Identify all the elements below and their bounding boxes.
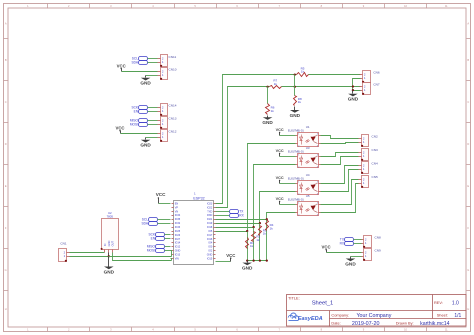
- wire R3 net from opto: [260, 192, 296, 224]
- wire ESP32 row to R3: [216, 223, 260, 225]
- wire U3 pin4 to CN3 pin2: [321, 153, 359, 157]
- svg-text:IO4: IO4: [208, 242, 213, 245]
- svg-text:IO5: IO5: [208, 230, 213, 233]
- svg-text:1k: 1k: [271, 109, 275, 113]
- optocoupler U1: [288, 125, 321, 147]
- svg-text:EL817MB(-D): EL817MB(-D): [288, 198, 304, 202]
- svg-text:REV:: REV:: [434, 300, 443, 305]
- wire ESP32 row to R4: [216, 219, 267, 221]
- svg-text:1k: 1k: [263, 232, 267, 236]
- svg-text:IO33: IO33: [175, 226, 181, 229]
- wire EN flag: [165, 238, 171, 240]
- svg-text:MOSI: MOSI: [130, 123, 138, 127]
- svg-text:EL817MB(-D): EL817MB(-D): [288, 177, 304, 181]
- wire U4 pin4 to CN4 pin2: [321, 166, 359, 184]
- svg-text:CN1: CN1: [60, 241, 66, 245]
- svg-text:VCC: VCC: [115, 126, 124, 131]
- wire R2 vertical: [253, 228, 255, 261]
- svg-text:VCC: VCC: [276, 197, 284, 201]
- power VCC group1: [117, 63, 126, 71]
- junction at U2 GND: [108, 255, 110, 257]
- connector CN13: [158, 117, 177, 129]
- net label SCL: [132, 57, 148, 61]
- svg-text:1: 1: [194, 191, 196, 195]
- svg-text:IO26: IO26: [175, 234, 181, 237]
- wire R4 vertical: [266, 220, 268, 261]
- junction rail R2: [252, 259, 254, 261]
- net label SCL at ESP32: [142, 218, 158, 222]
- resistor R2: [252, 232, 261, 242]
- wire SCK to CN14 pin2: [148, 107, 158, 109]
- wire MISO to CN13 pin2: [148, 120, 158, 122]
- wire ESP32 IO15 to VCC: [216, 261, 231, 263]
- svg-text:7: 7: [279, 4, 281, 8]
- svg-text:EN: EN: [175, 202, 179, 205]
- wire MOSI flag: [165, 250, 171, 252]
- wire U1 pin3 to CN2 pin1: [321, 143, 359, 144]
- svg-text:RX: RX: [340, 242, 345, 246]
- junction R8 crossing: [294, 86, 296, 88]
- svg-text:GND: GND: [140, 143, 151, 148]
- wire VCC to U1 pin1: [280, 135, 296, 137]
- wire R1 vertical: [247, 232, 249, 261]
- connector CN2: [359, 134, 378, 147]
- power VCC at ESP32 right: [226, 253, 235, 262]
- svg-text:2: 2: [68, 4, 70, 8]
- wire ESP32 row to R1: [216, 231, 248, 233]
- GND rail of resistor network: [248, 260, 267, 262]
- power VCC at U5: [276, 197, 284, 204]
- connector CN11: [158, 55, 177, 67]
- svg-text:RX: RX: [239, 214, 244, 218]
- wire OUT to ESP32 VIN jog: [171, 259, 172, 261]
- resistor R4: [266, 220, 274, 231]
- svg-text:GND: GND: [104, 269, 115, 274]
- svg-text:IO27: IO27: [175, 238, 181, 241]
- svg-text:VCC: VCC: [156, 192, 166, 197]
- wire U4 pin3 to CN4 pin1: [321, 170, 359, 192]
- power VCC group2: [115, 126, 124, 134]
- power VCC group3: [322, 245, 331, 253]
- svg-text:GND: GND: [207, 253, 213, 256]
- junction R3 top: [259, 222, 261, 224]
- ground regulator: [104, 257, 115, 275]
- wire RX to CN8 pin1: [354, 243, 362, 245]
- wire R7 to CN7 pin2: [282, 86, 361, 88]
- svg-text:Your Company: Your Company: [357, 313, 392, 319]
- net label SDA: [131, 61, 147, 65]
- wire RX flag: [216, 215, 230, 217]
- svg-text:G: G: [467, 268, 469, 272]
- svg-text:Drawn By:: Drawn By:: [396, 320, 414, 325]
- svg-text:1k: 1k: [256, 238, 260, 242]
- svg-text:EN: EN: [134, 110, 139, 114]
- ground group2: [140, 138, 151, 148]
- svg-text:2019-07-20: 2019-07-20: [352, 321, 380, 327]
- svg-text:4: 4: [152, 4, 154, 8]
- svg-text:B: B: [5, 58, 7, 62]
- svg-text:IO22: IO22: [207, 206, 213, 209]
- svg-text:Date:: Date:: [331, 320, 340, 325]
- net label TX at CN8: [340, 238, 354, 242]
- wire R3 vertical: [259, 224, 261, 261]
- svg-text:3: 3: [110, 4, 112, 8]
- svg-text:IO15: IO15: [207, 257, 213, 260]
- svg-text:SDA: SDA: [141, 222, 148, 226]
- net label RX at ESP32: [230, 214, 245, 218]
- svg-text:GND: GND: [140, 81, 151, 86]
- svg-text:A: A: [5, 22, 7, 26]
- wire CN6 pin1 down: [353, 79, 361, 91]
- svg-text:VN: VN: [175, 210, 179, 213]
- connector CN7: [360, 83, 380, 95]
- svg-text:1.0: 1.0: [452, 300, 459, 306]
- svg-text:CN2: CN2: [372, 134, 378, 138]
- svg-text:TITLE:: TITLE:: [288, 296, 300, 301]
- wire R4 net from opto: [267, 213, 296, 220]
- wire VCC to CN12 pin2: [121, 133, 158, 135]
- resistor R3: [259, 226, 267, 236]
- wire CN10 pin1 to ground: [146, 75, 158, 77]
- svg-text:VIN: VIN: [175, 257, 179, 260]
- junction rail R4: [266, 259, 268, 261]
- svg-text:IO2: IO2: [208, 250, 213, 253]
- svg-text:GND: GND: [290, 113, 301, 118]
- svg-text:5: 5: [194, 4, 196, 8]
- svg-text:TXD: TXD: [207, 210, 212, 213]
- svg-text:E: E: [5, 184, 7, 188]
- svg-text:IO19: IO19: [207, 222, 213, 225]
- power VCC at U3: [276, 149, 284, 156]
- junction R2 top: [252, 226, 254, 228]
- wire SCL flag: [158, 219, 171, 221]
- net label TX at ESP32: [230, 210, 245, 214]
- svg-text:D: D: [467, 142, 469, 146]
- junction R7-R6: [266, 86, 268, 88]
- svg-text:VCC: VCC: [226, 253, 235, 258]
- title block: [287, 295, 467, 327]
- svg-text:Sheet:: Sheet:: [437, 313, 448, 318]
- net label MISO at ESP32: [147, 245, 165, 249]
- wire CN9 pin1 to ground: [351, 256, 362, 258]
- svg-text:IO35: IO35: [175, 218, 181, 221]
- connector CN14: [158, 104, 177, 116]
- svg-text:7805: 7805: [107, 214, 114, 218]
- voltage regulator U2 7805: [101, 211, 119, 252]
- svg-text:H: H: [467, 307, 469, 311]
- svg-text:U3: U3: [306, 146, 310, 150]
- net label SDA at ESP32: [141, 222, 157, 226]
- svg-text:EL817MB(-D): EL817MB(-D): [288, 129, 304, 133]
- svg-text:IO25: IO25: [175, 230, 181, 233]
- svg-text:CN12: CN12: [169, 129, 177, 133]
- svg-text:G: G: [5, 268, 7, 272]
- svg-text:GND: GND: [107, 241, 111, 247]
- resistor R1: [246, 238, 255, 249]
- svg-text:GND: GND: [348, 97, 359, 102]
- resistor R6: [266, 104, 275, 115]
- net label MOSI at ESP32: [147, 249, 165, 253]
- svg-text:IN: IN: [103, 243, 107, 246]
- svg-text:U5: U5: [306, 194, 310, 198]
- svg-text:EasyEDA: EasyEDA: [298, 316, 323, 322]
- wire SDA to CN11 pin1: [148, 62, 158, 64]
- ground resistor network: [242, 261, 253, 271]
- ground group3: [345, 257, 356, 267]
- svg-text:EN: EN: [151, 237, 156, 241]
- ground R6: [262, 116, 273, 126]
- svg-text:C: C: [467, 100, 469, 104]
- svg-text:A: A: [467, 22, 469, 26]
- svg-text:1k: 1k: [270, 226, 274, 230]
- svg-text:1k: 1k: [298, 100, 302, 104]
- svg-text:Sheet_1: Sheet_1: [312, 301, 334, 307]
- wire VCC to CN9 pin2: [327, 252, 362, 254]
- wire ESP32 IO22 up to R7 net: [216, 87, 270, 208]
- svg-text:E: E: [467, 184, 469, 188]
- wire VCC to ESP32 EN: [159, 203, 171, 205]
- svg-text:IO21: IO21: [207, 218, 213, 221]
- svg-text:1k: 1k: [250, 244, 254, 248]
- svg-text:CN14: CN14: [169, 104, 177, 108]
- optocoupler U3: [288, 146, 321, 169]
- svg-text:C: C: [5, 100, 7, 104]
- svg-text:IO16: IO16: [207, 238, 213, 241]
- junction CN7 pin1: [352, 89, 354, 91]
- svg-text:CN7: CN7: [373, 83, 379, 87]
- wire U1 pin4 to CN2 pin2: [321, 136, 359, 139]
- svg-text:CN5: CN5: [372, 175, 378, 179]
- net label SCK at ESP32: [148, 233, 164, 237]
- svg-text:IO23: IO23: [207, 202, 213, 205]
- svg-text:CN11: CN11: [169, 55, 177, 59]
- svg-text:VCC: VCC: [322, 245, 331, 250]
- junction rail R1: [246, 259, 248, 261]
- junction R4 top: [266, 218, 268, 220]
- connector CN1: [59, 241, 70, 262]
- svg-text:GND: GND: [175, 250, 181, 253]
- wire SCL to CN11 pin2: [148, 58, 158, 60]
- power VCC at U1: [276, 128, 284, 135]
- net label EN: [134, 110, 148, 114]
- svg-text:EL817MB(-D): EL817MB(-D): [288, 150, 304, 154]
- wire TX flag: [216, 211, 230, 213]
- svg-text:IO34: IO34: [175, 214, 181, 217]
- svg-text:GND: GND: [262, 120, 273, 125]
- wire VCC to U3 pin1: [280, 156, 296, 158]
- svg-text:CN13: CN13: [169, 117, 177, 121]
- wire U2 GND down: [108, 253, 110, 257]
- wire SCK flag: [165, 234, 171, 236]
- connector CN8: [361, 235, 381, 248]
- svg-text:H: H: [5, 307, 7, 311]
- svg-text:IO0: IO0: [208, 246, 213, 249]
- junction R1 top: [246, 230, 248, 232]
- svg-text:VP: VP: [175, 206, 179, 209]
- net label RX at CN8: [340, 242, 354, 246]
- wire CN1 pin2 to U2 IN: [70, 252, 105, 254]
- svg-text:F: F: [5, 226, 7, 230]
- wire R5 to CN6 pin2: [309, 74, 361, 76]
- svg-text:CN10: CN10: [169, 68, 177, 72]
- connector CN12: [158, 129, 177, 142]
- svg-text:10: 10: [404, 4, 407, 8]
- wire R8 vertical: [294, 75, 296, 96]
- svg-text:VCC: VCC: [276, 149, 284, 153]
- connector CN4: [359, 161, 378, 174]
- wire VCC to CN10 pin2: [122, 71, 158, 73]
- svg-text:CN9: CN9: [375, 249, 381, 253]
- optocoupler U4: [288, 173, 321, 196]
- resistor R5: [297, 66, 309, 76]
- power VCC at U4: [276, 176, 284, 183]
- optocoupler U5: [288, 194, 321, 217]
- svg-text:6: 6: [236, 4, 238, 8]
- svg-text:ESP32: ESP32: [193, 196, 204, 200]
- resistor R8: [294, 96, 302, 106]
- svg-text:1: 1: [27, 4, 29, 8]
- svg-text:IO14: IO14: [175, 242, 181, 245]
- wire U5 pin3 to CN5 pin1: [321, 184, 359, 213]
- connector CN9: [361, 249, 381, 261]
- svg-text:OUT: OUT: [111, 241, 115, 247]
- wire VCC to U4 pin1: [280, 183, 296, 185]
- connector CN6: [360, 70, 380, 83]
- net label EN at ESP32: [151, 237, 165, 241]
- EasyEDA logo: [288, 313, 323, 322]
- svg-text:CN4: CN4: [372, 161, 378, 165]
- wire MOSI to CN13 pin1: [148, 124, 158, 126]
- net label MISO: [130, 119, 148, 123]
- svg-text:11: 11: [445, 4, 448, 8]
- svg-text:IO18: IO18: [207, 226, 213, 229]
- svg-text:GND: GND: [345, 261, 356, 266]
- svg-text:IO12: IO12: [175, 246, 181, 249]
- wire U3 pin3 to CN3 pin1: [321, 157, 359, 165]
- svg-text:1/1: 1/1: [454, 313, 461, 319]
- ground CN6 CN7: [348, 91, 359, 102]
- wire GND rail to ESP32: [109, 256, 172, 258]
- wire ESP32 GND pin jog: [171, 251, 172, 257]
- wire EN to CN14 pin1: [148, 111, 158, 113]
- svg-text:VCC: VCC: [276, 176, 284, 180]
- connector CN3: [359, 148, 378, 161]
- svg-text:karthik.mc14: karthik.mc14: [420, 321, 450, 327]
- junction CN7 pin2 cross: [352, 85, 354, 87]
- svg-text:CN6: CN6: [373, 70, 379, 74]
- svg-text:GND: GND: [242, 266, 253, 271]
- wire SDA flag: [158, 223, 171, 225]
- connector CN10: [158, 68, 177, 80]
- svg-text:CN3: CN3: [372, 148, 378, 152]
- svg-text:U1: U1: [306, 125, 310, 129]
- svg-text:MOSI: MOSI: [147, 249, 155, 253]
- svg-text:D: D: [5, 142, 7, 146]
- ESP32 module U1: [172, 191, 216, 264]
- svg-text:VCC: VCC: [117, 63, 126, 68]
- power VCC at ESP32 pin EN: [156, 192, 166, 203]
- connector CN5: [359, 175, 378, 188]
- svg-text:RXD: RXD: [207, 214, 212, 217]
- wire ESP32 IO23 up to R5 net: [216, 75, 297, 204]
- ground group1: [140, 76, 151, 86]
- svg-text:F: F: [468, 226, 470, 230]
- wire R2 net from opto: [254, 165, 296, 228]
- wire MISO flag: [165, 246, 171, 248]
- svg-text:IO32: IO32: [175, 222, 181, 225]
- wire TX to CN8 pin2: [354, 239, 362, 241]
- wire R6 vertical: [267, 87, 269, 104]
- junction R5-R8: [294, 73, 296, 75]
- net label SCK: [131, 106, 147, 110]
- wire ESP32 row to R2: [216, 227, 254, 229]
- svg-text:B: B: [467, 58, 469, 62]
- wire R1 net from opto: [248, 144, 296, 232]
- wire VCC to U5 pin1: [280, 204, 296, 206]
- svg-text:Company:: Company:: [331, 313, 349, 318]
- wire U5 pin4 to CN5 pin2: [321, 180, 359, 205]
- svg-text:CN8: CN8: [375, 235, 381, 239]
- svg-text:1k: 1k: [274, 82, 278, 86]
- svg-text:8: 8: [321, 4, 323, 8]
- svg-text:9: 9: [363, 4, 365, 8]
- wire U2 OUT down: [113, 253, 172, 261]
- wire CN1 pin1 to GND rail: [70, 256, 109, 258]
- svg-text:IO17: IO17: [207, 234, 213, 237]
- svg-text:VCC: VCC: [276, 128, 284, 132]
- ground R8: [290, 107, 301, 118]
- net label MOSI: [130, 123, 148, 127]
- junction rail R3: [259, 259, 261, 261]
- wire CN12 pin1 to ground: [146, 137, 158, 139]
- svg-text:U4: U4: [306, 173, 310, 177]
- svg-text:IO13: IO13: [175, 253, 181, 256]
- svg-text:SDA: SDA: [131, 61, 138, 65]
- svg-text:1k: 1k: [301, 70, 305, 74]
- resistor R7: [270, 79, 282, 89]
